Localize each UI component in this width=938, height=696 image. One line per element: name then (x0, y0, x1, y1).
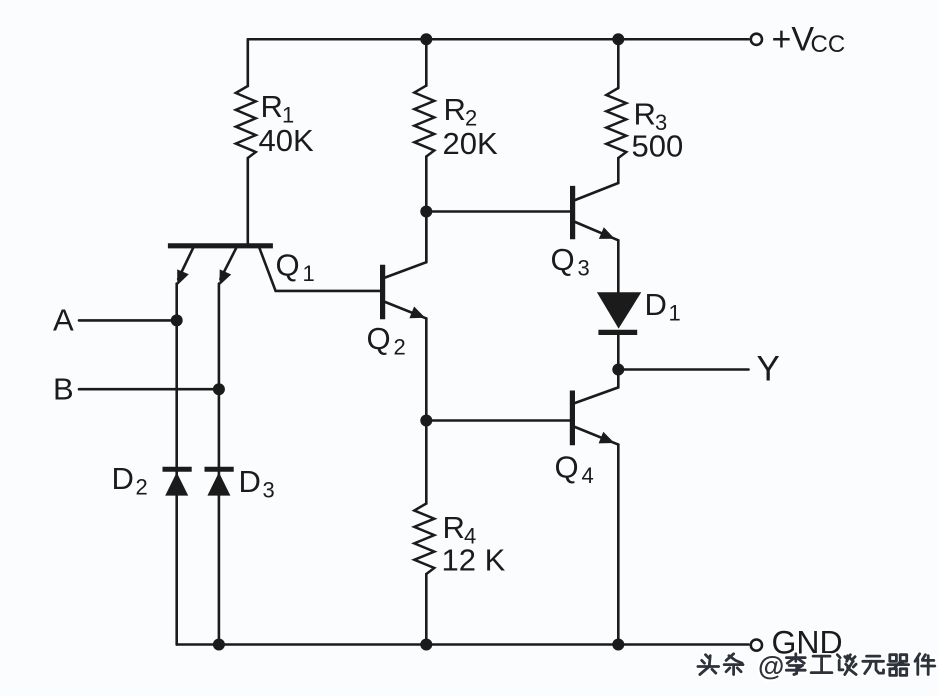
diode D2 anode triangle (165, 472, 188, 495)
svg-text:Q: Q (276, 248, 300, 283)
label A (53, 303, 74, 338)
node GND junction Q4 (612, 639, 624, 651)
label D3 (239, 464, 275, 503)
wire input B (79, 388, 219, 391)
diode D1 cathode bar (598, 330, 637, 335)
transistor Q4 base bar (570, 391, 575, 446)
wire R2 top (425, 39, 428, 85)
svg-text:Q: Q (367, 321, 391, 356)
label Q3 (551, 242, 590, 281)
label R3 value 500 (632, 129, 684, 164)
wire R1 top (247, 39, 250, 86)
svg-text:R: R (444, 92, 466, 127)
svg-text:Y: Y (757, 350, 780, 389)
wire R2 bottom (425, 157, 428, 263)
transistor Q3 base bar (570, 186, 575, 239)
wire Q1 emitter 1 vertical (175, 284, 178, 645)
svg-text:+V: +V (772, 21, 815, 59)
wire R3 top (617, 39, 620, 88)
wire GND rail (177, 643, 749, 646)
svg-text:R: R (261, 89, 283, 124)
label D1 (645, 287, 681, 326)
node VCC junction R3 (612, 33, 624, 45)
svg-text:2: 2 (394, 335, 406, 360)
diode D2 cathode bar (163, 467, 192, 472)
svg-text:R: R (443, 510, 465, 545)
node Q4 base junction (420, 415, 432, 427)
label GND (772, 625, 843, 661)
node VCC junction R2 (420, 33, 432, 45)
wire Q3 base (426, 210, 570, 213)
wire VCC rail (248, 38, 749, 41)
svg-text:3: 3 (578, 256, 590, 281)
svg-text:3: 3 (263, 478, 275, 503)
wire R4 bottom (425, 574, 428, 645)
svg-text:B: B (53, 372, 74, 407)
svg-text:D: D (112, 461, 134, 496)
wire output Y (618, 368, 748, 371)
wire Q4 emitter diagonal (575, 427, 618, 445)
svg-text:R: R (634, 97, 656, 132)
arrow Q1 emitter 2 (220, 269, 232, 285)
svg-text:Q: Q (551, 242, 575, 277)
label B (53, 372, 74, 407)
node B junction (213, 383, 225, 395)
svg-text:D: D (645, 287, 667, 322)
transistor Q1 base bar (168, 243, 273, 248)
watermark 头条 @李工谈元器件 (698, 651, 935, 681)
transistor Q2 base bar (380, 265, 385, 319)
svg-text:40K: 40K (259, 123, 314, 158)
wire Q1 emitter 2 diagonal (220, 248, 236, 279)
wire Q3 emitter diagonal (575, 222, 618, 240)
svg-text:D: D (239, 464, 261, 499)
wire Q2 emitter vertical (425, 318, 428, 420)
label R2 value 20K (443, 126, 498, 161)
label R2 (444, 92, 478, 131)
wire Q2 collector (385, 212, 426, 278)
wire Q2 emitter diagonal (385, 302, 426, 318)
svg-text:1: 1 (303, 261, 315, 286)
resistor R3 (606, 88, 626, 158)
label Q1 (276, 248, 315, 287)
label R4 value 12 K (442, 543, 506, 578)
resistor R2 (414, 86, 434, 157)
wire Q1 collector (260, 248, 381, 291)
node A junction (171, 314, 183, 326)
svg-text:500: 500 (632, 129, 684, 164)
diode D3 anode triangle (207, 472, 230, 495)
svg-text:4: 4 (582, 463, 594, 488)
resistor R1 (236, 86, 256, 158)
wire Q1 emitter 1 diagonal (178, 248, 193, 279)
resistor R4 (414, 504, 434, 575)
label Y (757, 350, 780, 389)
wire R1 bottom (247, 158, 250, 244)
label +VCC (772, 21, 846, 59)
svg-text:20K: 20K (443, 126, 498, 161)
VCC terminal (751, 34, 762, 45)
node GND junction R4 (420, 639, 432, 651)
label D2 (112, 461, 148, 500)
svg-text:CC: CC (811, 31, 846, 58)
svg-text:2: 2 (136, 475, 148, 500)
arrow Q3 emitter (599, 227, 615, 239)
label R3 (634, 97, 668, 136)
wire input A (79, 319, 177, 322)
wire D1 to Y (617, 335, 620, 370)
wire Q3 collector (575, 183, 618, 200)
svg-text:@: @ (758, 651, 784, 681)
svg-text:A: A (53, 303, 74, 338)
wire Q4 collector (575, 370, 618, 404)
arrow Q4 emitter (599, 432, 615, 444)
svg-text:12 K: 12 K (442, 543, 506, 578)
diode D1 anode triangle (597, 292, 641, 328)
GND terminal (751, 640, 762, 651)
wire Q4 emitter vertical (617, 445, 620, 645)
svg-text:Q: Q (555, 450, 579, 485)
node Y junction (612, 364, 624, 376)
label R1 (261, 89, 295, 128)
label R4 (443, 510, 477, 549)
label Q2 (367, 321, 406, 360)
arrow Q2 emitter (409, 307, 425, 319)
label R1 value 40K (259, 123, 314, 158)
node GND junction D3 (213, 639, 225, 651)
wire R3 bottom (617, 158, 620, 183)
svg-text:1: 1 (669, 301, 681, 326)
wire Q1 emitter 2 vertical (218, 284, 221, 645)
node Q2 collector junction (420, 206, 432, 218)
wire R4 top (425, 421, 428, 504)
diode D3 cathode bar (205, 467, 234, 472)
label Q4 (555, 450, 594, 489)
wire Q3 emitter vertical (617, 240, 620, 292)
wire Q4 base (426, 419, 570, 422)
arrow Q1 emitter 1 (177, 269, 189, 285)
